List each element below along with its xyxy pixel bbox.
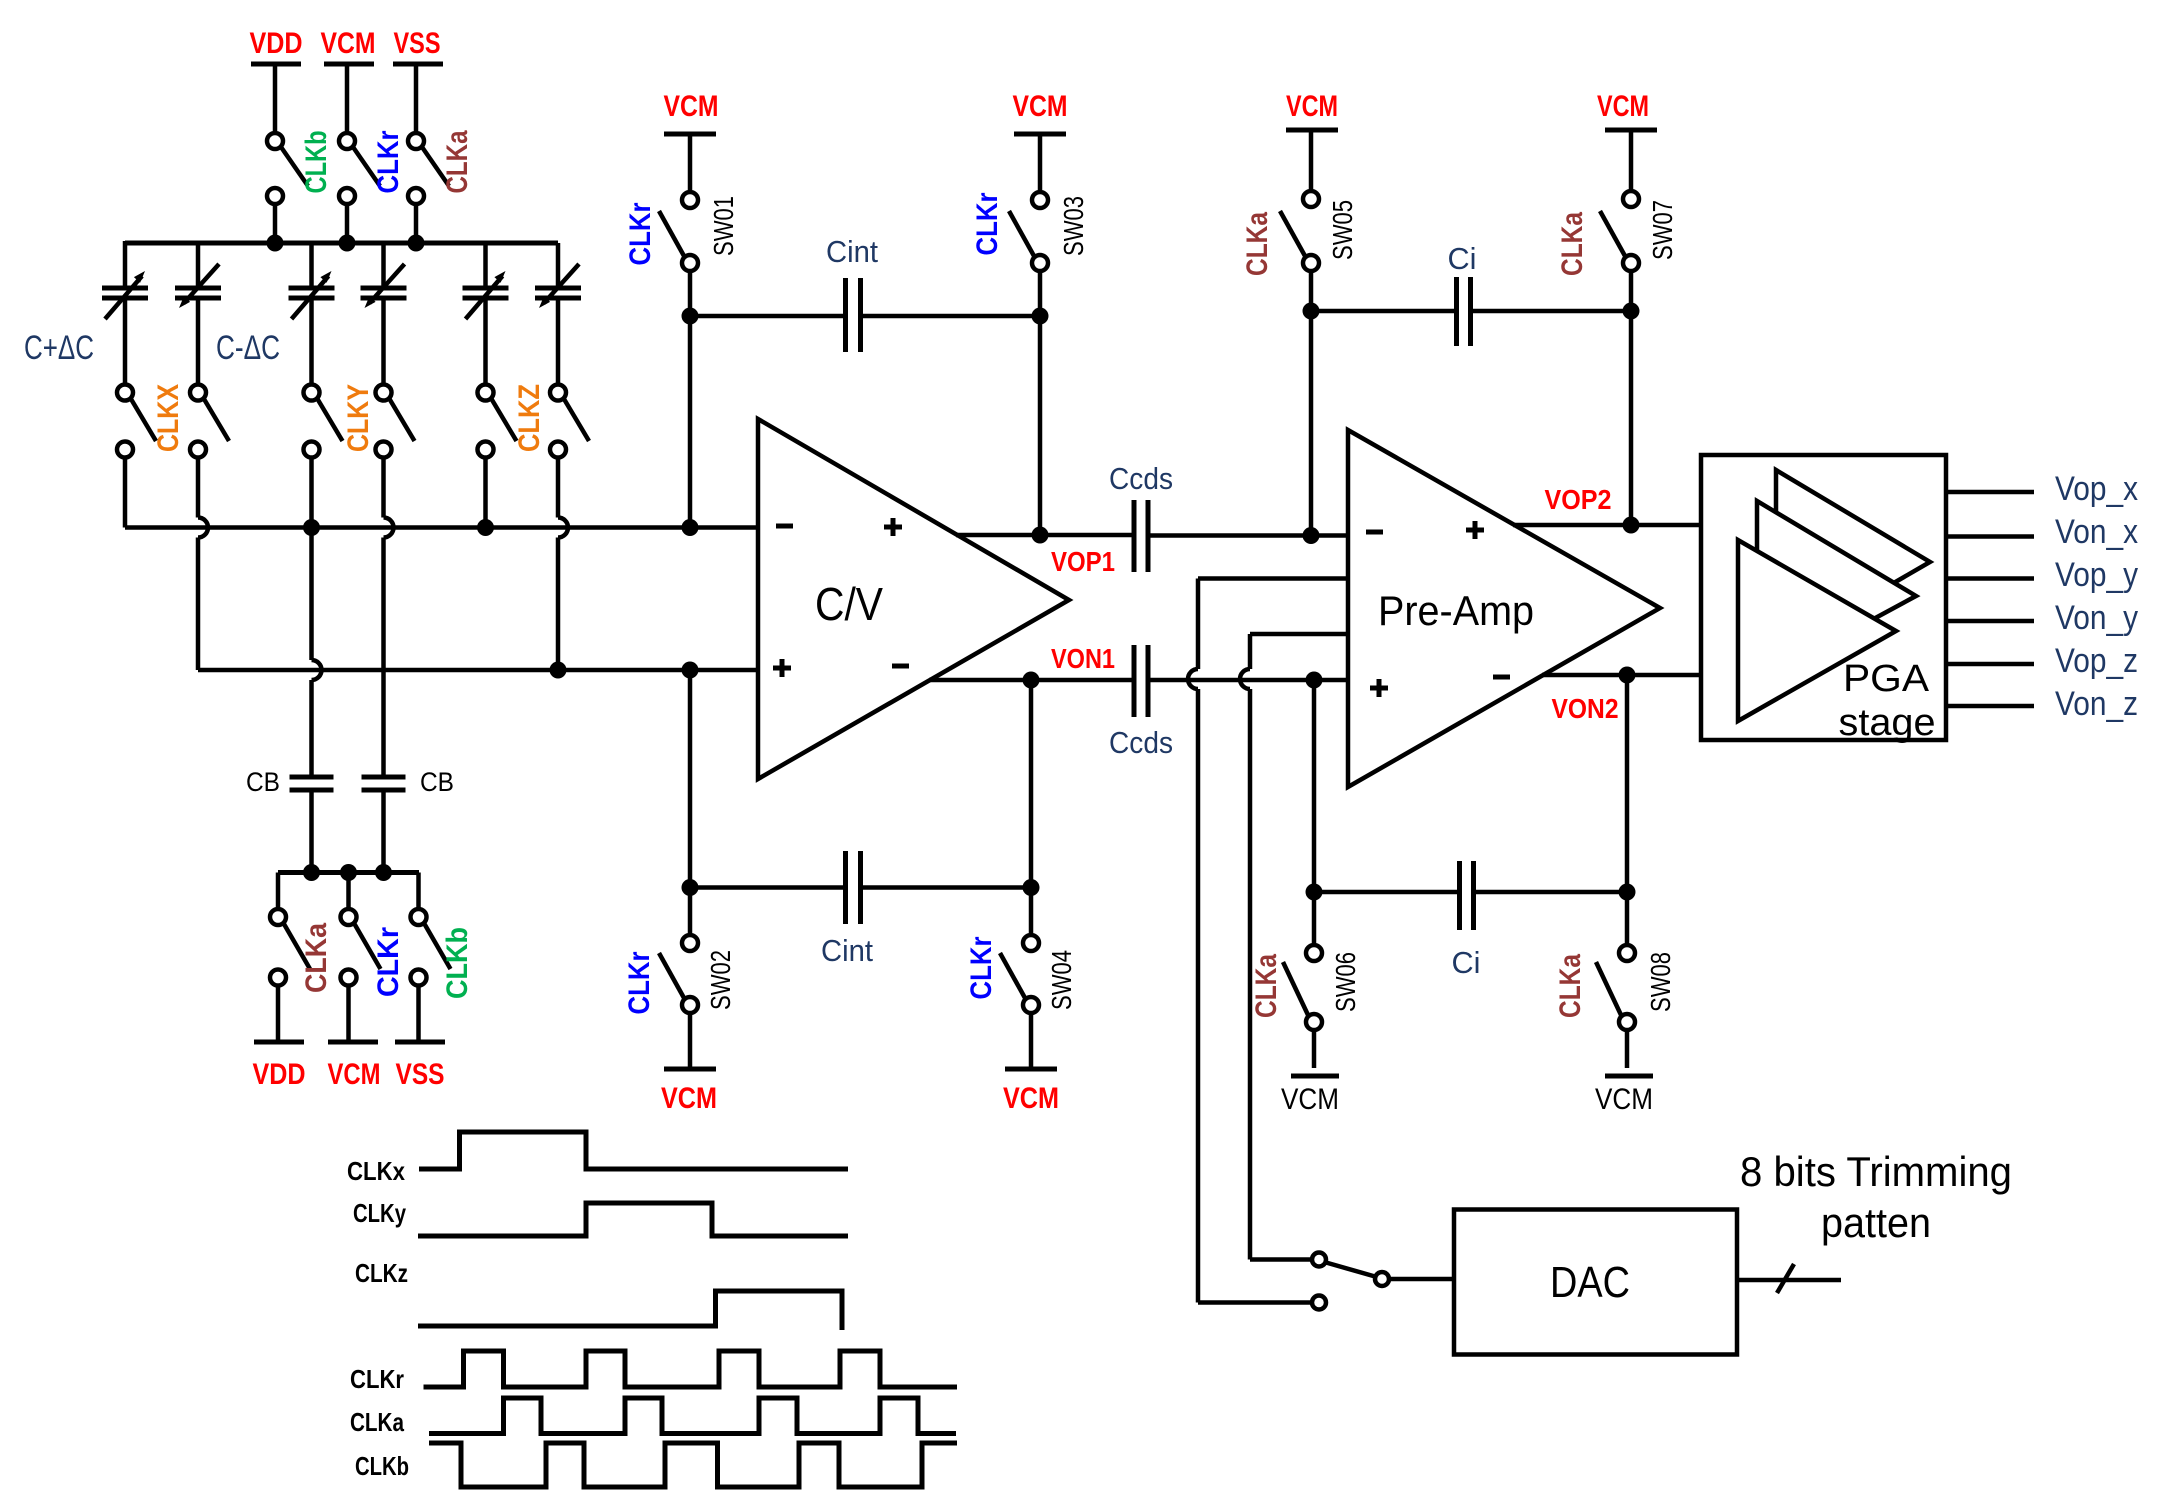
wire Ci top left node — [1303, 303, 1320, 320]
wire Ccds to Pre-Amp plus input — [1148, 678, 1348, 683]
capacitor C-dC (Z, col6) — [535, 243, 581, 383]
wire DAC digital output with bus slash — [1737, 1264, 1841, 1293]
switch CLKr (bottom bank to VCM) — [341, 873, 406, 1043]
wire Von_z output stub — [1946, 704, 2034, 709]
svg-text:Ccds: Ccds — [1109, 725, 1173, 760]
wire Vop_y output stub — [1946, 576, 2034, 581]
svg-text:Ci: Ci — [1452, 945, 1481, 980]
svg-text:Ci: Ci — [1448, 241, 1477, 276]
switch CLKa (bottom bank to VDD) — [270, 873, 333, 1043]
wire col4 hop over minus bus then down to CB2 — [384, 518, 394, 538]
svg-text:Ccds: Ccds — [1109, 461, 1173, 496]
svg-text:stage: stage — [1839, 702, 1936, 744]
junction dots on bottom bank bus — [303, 864, 320, 881]
wire VON2 output to PGA — [1542, 673, 1703, 678]
svg-text:CLKa: CLKa — [1241, 212, 1274, 276]
net VCM (bottom left) — [328, 1042, 381, 1091]
pin minus (C/V bottom-right) — [892, 664, 909, 669]
net VCM (above SW07) — [1597, 90, 1657, 190]
svg-text:CLKr: CLKr — [350, 1364, 404, 1394]
wire C/V plus input down to bottom feedback — [688, 670, 693, 888]
svg-text:CB: CB — [420, 767, 454, 797]
net VCM (below SW02) — [661, 1069, 717, 1115]
svg-text:Vop_z: Vop_z — [2055, 642, 2138, 680]
wire Vop_z output stub — [1946, 662, 2034, 667]
svg-text:CLKZ: CLKZ — [513, 384, 546, 452]
wire Cint top left node — [682, 308, 699, 325]
svg-text:VSS: VSS — [396, 1058, 445, 1091]
wire Ci bottom left node — [1314, 890, 1457, 895]
pin minus (Pre-Amp bottom-right) — [1493, 675, 1510, 680]
svg-text:VCM: VCM — [1281, 1083, 1339, 1116]
capacitor Cint (top) — [826, 234, 878, 352]
capacitor Ci (top) — [1448, 241, 1477, 346]
label 8 bits Trimming patten — [1740, 1148, 2012, 1246]
svg-text:CLKz: CLKz — [355, 1258, 408, 1288]
wire Vop_x output stub — [1946, 490, 2034, 495]
svg-text:VON1: VON1 — [1051, 643, 1115, 674]
wire VON1 output — [929, 678, 1134, 683]
net VCM (above SW05) — [1286, 90, 1338, 190]
PGA amp triangle (middle) — [1757, 501, 1916, 682]
wire trim tap A (upper, to DAC mux) with hop over VON1 wire — [1188, 579, 1348, 1303]
capacitor C-dC (X, col2) — [175, 243, 221, 383]
switch CLKb (VDD to cap bus) — [267, 131, 333, 244]
svg-text:CLKx: CLKx — [347, 1156, 405, 1186]
net VDD (top) — [250, 27, 303, 131]
svg-text:VOP1: VOP1 — [1051, 546, 1115, 577]
switch CLKa (VSS to cap bus) — [408, 130, 474, 243]
wire col3 down to CB1 with hop over plus bus — [309, 528, 314, 661]
waveform CLKa — [429, 1398, 956, 1434]
junction dots on plus bus — [550, 662, 567, 679]
wire trim tap B (lower, to DAC mux) with hop over VON1 wire — [1240, 634, 1348, 1260]
capacitor CB (right) — [362, 767, 455, 873]
wire SW05 node down to Pre-Amp minus input — [1309, 311, 1314, 536]
net VCM-bar (below SW06) — [1281, 1076, 1339, 1116]
svg-text:VCM: VCM — [321, 27, 376, 60]
svg-text:C-ΔC: C-ΔC — [216, 329, 280, 367]
wire Ci bottom right node — [1476, 890, 1627, 895]
wire Cint bottom right node — [863, 885, 1031, 890]
capacitor Ccds (top) — [1109, 461, 1173, 572]
net VCM (above SW03) — [1013, 90, 1068, 191]
svg-text:C+ΔC: C+ΔC — [24, 329, 94, 367]
svg-text:VCM: VCM — [1013, 90, 1068, 123]
net VCM (below SW04) — [1003, 1069, 1059, 1115]
switch SW02 (CLKr) — [623, 888, 736, 1070]
svg-text:DAC: DAC — [1550, 1258, 1630, 1307]
capacitor Ccds (bottom) — [1109, 645, 1173, 760]
pin plus (Pre-Amp bottom-left) — [1370, 679, 1388, 697]
svg-text:8 bits Trimming: 8 bits Trimming — [1740, 1148, 2012, 1195]
svg-text:CLKa: CLKa — [441, 130, 474, 193]
svg-text:CLKY: CLKY — [342, 384, 375, 452]
wire Ccds to Pre-Amp minus input — [1148, 533, 1348, 538]
capacitor C+dC (Y, col3) — [289, 243, 335, 383]
svg-text:VCM: VCM — [1003, 1082, 1059, 1115]
wire top cap bus — [125, 241, 558, 246]
svg-text:VCM: VCM — [664, 90, 719, 123]
switch CLKZ (col5) — [478, 384, 547, 528]
wire SW01 node down to minus bus — [688, 316, 693, 528]
wire plus input bus to C/V — [198, 668, 758, 673]
junction dots on minus bus — [303, 519, 320, 536]
block DAC — [1454, 1210, 1737, 1355]
net VCM-bar (below SW08) — [1595, 1076, 1653, 1116]
svg-text:CLKa: CLKa — [1554, 954, 1587, 1018]
pin plus (C/V bottom-left) — [773, 659, 791, 677]
switch SW01 (CLKr) — [624, 192, 739, 316]
svg-text:SW04: SW04 — [1046, 950, 1077, 1010]
pin plus (Pre-Amp top-right) — [1466, 521, 1484, 539]
svg-text:CB: CB — [246, 767, 280, 797]
wire VOP2 output to PGA — [1513, 523, 1703, 528]
wire Von_y output stub — [1946, 619, 2034, 624]
svg-text:patten: patten — [1821, 1199, 1931, 1246]
switch SW04 (CLKr) — [965, 888, 1077, 1070]
wire VOP1 output — [956, 533, 1132, 538]
block PGA stage — [1701, 455, 1946, 744]
capacitor Cint (bottom) — [821, 851, 873, 968]
wire minus input bus to C/V — [125, 525, 758, 530]
svg-text:Von_z: Von_z — [2055, 685, 2138, 723]
svg-text:VDD: VDD — [250, 27, 303, 60]
waveform CLKy — [418, 1203, 848, 1236]
svg-text:CLKr: CLKr — [623, 951, 656, 1014]
capacitor CB (left) — [246, 767, 334, 873]
wire Cint top right node — [863, 314, 1040, 319]
waveform CLKx — [419, 1132, 848, 1169]
svg-text:CLKr: CLKr — [372, 927, 405, 997]
net VCM (top left) — [321, 27, 376, 131]
PGA amp triangle (front) — [1738, 540, 1896, 721]
wire SW03 node down to VOP1 — [1038, 316, 1043, 535]
wire Ci top right node — [1473, 309, 1631, 314]
svg-text:VCM: VCM — [328, 1058, 381, 1091]
svg-text:CLKr: CLKr — [372, 130, 405, 193]
svg-text:VDD: VDD — [253, 1058, 306, 1091]
switch CLKr (VCM to cap bus) — [339, 130, 405, 243]
wire Cint bottom left node — [690, 885, 843, 890]
svg-text:CLKr: CLKr — [624, 202, 657, 265]
pin plus (C/V top-right) — [884, 518, 902, 536]
svg-text:SW06: SW06 — [1330, 952, 1361, 1012]
switch SW06 (CLKa) — [1250, 892, 1361, 1068]
op-amp C/V — [758, 419, 1069, 779]
svg-text:VCM: VCM — [1597, 90, 1649, 123]
wire col2 hop over minus bus — [198, 518, 208, 538]
wire SW04 node up to VON1 — [1029, 680, 1034, 888]
svg-text:VON2: VON2 — [1552, 693, 1619, 724]
svg-text:SW05: SW05 — [1327, 200, 1358, 260]
switch SW03 (CLKr) — [971, 192, 1089, 316]
capacitor C-dC (Y, col4) — [361, 243, 407, 383]
wire Pre-Amp plus input down to bottom feedback — [1312, 680, 1317, 892]
net VSS (bottom) — [395, 1042, 445, 1091]
svg-text:CLKy: CLKy — [353, 1198, 406, 1228]
switch (col2, CLKX pair) — [190, 385, 229, 518]
switch CLKX (col1) — [117, 384, 185, 528]
waveform CLKr — [424, 1351, 958, 1387]
svg-text:VOP2: VOP2 — [1545, 484, 1612, 515]
capacitor C+dC (Z, col5) — [463, 243, 509, 383]
svg-text:CLKr: CLKr — [965, 936, 998, 999]
svg-text:SW03: SW03 — [1058, 196, 1089, 256]
svg-text:Cint: Cint — [821, 933, 873, 968]
svg-text:Cint: Cint — [826, 234, 878, 269]
svg-text:Von_x: Von_x — [2055, 513, 2138, 551]
switch trim mux (2-to-1 before DAC) — [1312, 1253, 1454, 1310]
svg-text:SW02: SW02 — [705, 950, 736, 1010]
wire col6 hop over minus bus — [558, 518, 568, 538]
wire bottom bank bus — [278, 870, 419, 875]
svg-text:VCM: VCM — [1286, 90, 1338, 123]
waveform CLKb — [429, 1443, 957, 1487]
svg-text:VCM: VCM — [1595, 1083, 1653, 1116]
op-amp Pre-Amp — [1348, 430, 1660, 787]
svg-text:CLKa: CLKa — [300, 923, 333, 993]
net VCM (above SW01) — [664, 90, 719, 191]
capacitor C+dC (X, col1) — [102, 241, 148, 383]
svg-text:Vop_x: Vop_x — [2055, 470, 2138, 508]
wire SW07 node down to VOP2 — [1629, 311, 1634, 525]
svg-text:CLKb: CLKb — [355, 1451, 409, 1481]
junction dots on top cap bus — [267, 235, 284, 252]
switch CLKb (bottom bank to VSS) — [411, 873, 475, 1043]
pin minus (C/V top-left) — [776, 524, 793, 529]
switch (col4, CLKY pair) — [376, 385, 415, 518]
wire VON2 down to Ci bottom right node — [1625, 675, 1630, 892]
switch SW07 (CLKa) — [1556, 191, 1678, 311]
switch (col6, CLKZ pair) — [550, 385, 589, 518]
svg-text:C/V: C/V — [815, 578, 883, 630]
waveform CLKz — [418, 1291, 842, 1330]
svg-text:CLKa: CLKa — [350, 1407, 404, 1437]
net VSS (top) — [393, 27, 443, 131]
svg-text:Von_y: Von_y — [2055, 599, 2138, 637]
svg-text:CLKb: CLKb — [441, 927, 474, 999]
svg-text:SW01: SW01 — [708, 196, 739, 256]
wire Von_x output stub — [1946, 534, 2034, 539]
svg-text:PGA: PGA — [1843, 658, 1930, 700]
svg-text:CLKX: CLKX — [152, 384, 185, 452]
switch SW08 (CLKa) — [1554, 892, 1676, 1068]
switch SW05 (CLKa) — [1241, 191, 1358, 311]
svg-text:SW07: SW07 — [1647, 200, 1678, 260]
svg-text:Vop_y: Vop_y — [2055, 556, 2138, 594]
svg-text:CLKa: CLKa — [1250, 954, 1283, 1018]
svg-text:VCM: VCM — [661, 1082, 717, 1115]
svg-text:VSS: VSS — [394, 27, 441, 60]
net VDD (bottom) — [253, 1042, 306, 1091]
svg-text:CLKa: CLKa — [1556, 212, 1589, 276]
svg-text:CLKb: CLKb — [300, 131, 333, 194]
svg-text:SW08: SW08 — [1645, 952, 1676, 1012]
capacitor Ci (bottom) — [1452, 861, 1481, 980]
svg-text:CLKr: CLKr — [971, 192, 1004, 255]
svg-text:Pre-Amp: Pre-Amp — [1378, 587, 1534, 634]
PGA amp triangle (back) — [1776, 470, 1930, 651]
switch CLKY (col3) — [304, 384, 376, 528]
pin minus (Pre-Amp top-left) — [1366, 530, 1383, 535]
